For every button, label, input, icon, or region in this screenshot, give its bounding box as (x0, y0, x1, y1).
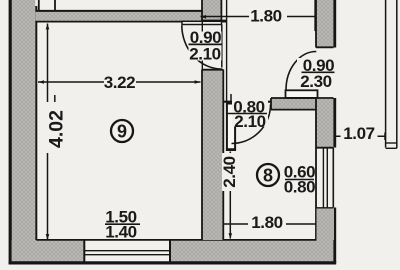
door D1 swing arc (182, 25, 222, 69)
window label 1.50/1.40 (room 9) (105, 207, 140, 241)
svg-text:0.80: 0.80 (284, 178, 316, 197)
door D2 swing arc (286, 52, 316, 91)
door label 0.80/2.10 (hall door) (228, 98, 269, 131)
dimension text 1.07 (341, 126, 378, 141)
dimension 1.80 bottom (224, 223, 316, 225)
svg-text:1.80: 1.80 (250, 6, 282, 25)
svg-text:3.22: 3.22 (104, 73, 136, 92)
svg-text:2.10: 2.10 (189, 44, 221, 63)
middle wall upper block (202, 0, 227, 102)
middle wall lower part (202, 70, 223, 241)
svg-text:1.40: 1.40 (105, 223, 137, 242)
left outer wall (10, 0, 36, 264)
bottom outer wall (left of window) (12, 240, 85, 262)
right outer wall middle segment (316, 98, 335, 263)
door D1 jamb line (221, 25, 223, 68)
svg-text:1.07: 1.07 (343, 124, 375, 143)
door D3 0.80/2.10 leaf (227, 104, 235, 151)
window label 0.60/0.80 (room 8) (284, 163, 316, 197)
dimension text 1.80 bottom (248, 215, 286, 230)
dimension text 2.40 (rotated) (222, 153, 237, 191)
door label 0.90/2.30 (right door) (297, 56, 335, 91)
dimension 4.02 line (46, 24, 50, 240)
window W1 in bottom wall (84, 240, 170, 263)
bottom wall outer face line (9, 261, 337, 264)
bottom wall inner face line (36, 239, 316, 241)
svg-text:2.30: 2.30 (300, 72, 332, 91)
door D3 threshold line (223, 101, 271, 103)
hallway bottom wall (271, 98, 334, 110)
svg-text:2.40: 2.40 (220, 156, 239, 188)
dimension 1.80 top (201, 0, 316, 31)
svg-text:8: 8 (263, 166, 273, 186)
upper room short line (54, 0, 56, 11)
dimension 1.07 (334, 133, 386, 141)
svg-text:4.02: 4.02 (46, 110, 68, 148)
door D1 0.90/2.10 leaf (182, 21, 222, 24)
window W2 in right wall (316, 148, 333, 208)
door D2 0.90/2.30 leaf (286, 90, 318, 98)
balcony line far right (396, 0, 398, 148)
right outer wall upper segment (316, 0, 335, 48)
room number 8 (257, 164, 279, 186)
balcony line outer (385, 0, 387, 148)
right outer wall lower segment (317, 209, 335, 241)
svg-text:9: 9 (117, 122, 127, 142)
door label 0.90/2.10 (top door) (189, 28, 223, 64)
top wall (between upper room and room 9) (36, 11, 227, 22)
svg-text:2.10: 2.10 (234, 112, 266, 131)
bottom outer wall (right of window) (170, 240, 334, 262)
door D3 swing arc (232, 105, 271, 144)
balcony step line (386, 142, 397, 144)
dimension 3.22 line (38, 80, 201, 84)
svg-text:1.80: 1.80 (251, 213, 283, 232)
door D3 jamb line (230, 94, 232, 102)
upper room interior wall line left (38, 0, 40, 11)
dimension 2.40 (226, 150, 235, 239)
room number 9 (111, 120, 133, 142)
